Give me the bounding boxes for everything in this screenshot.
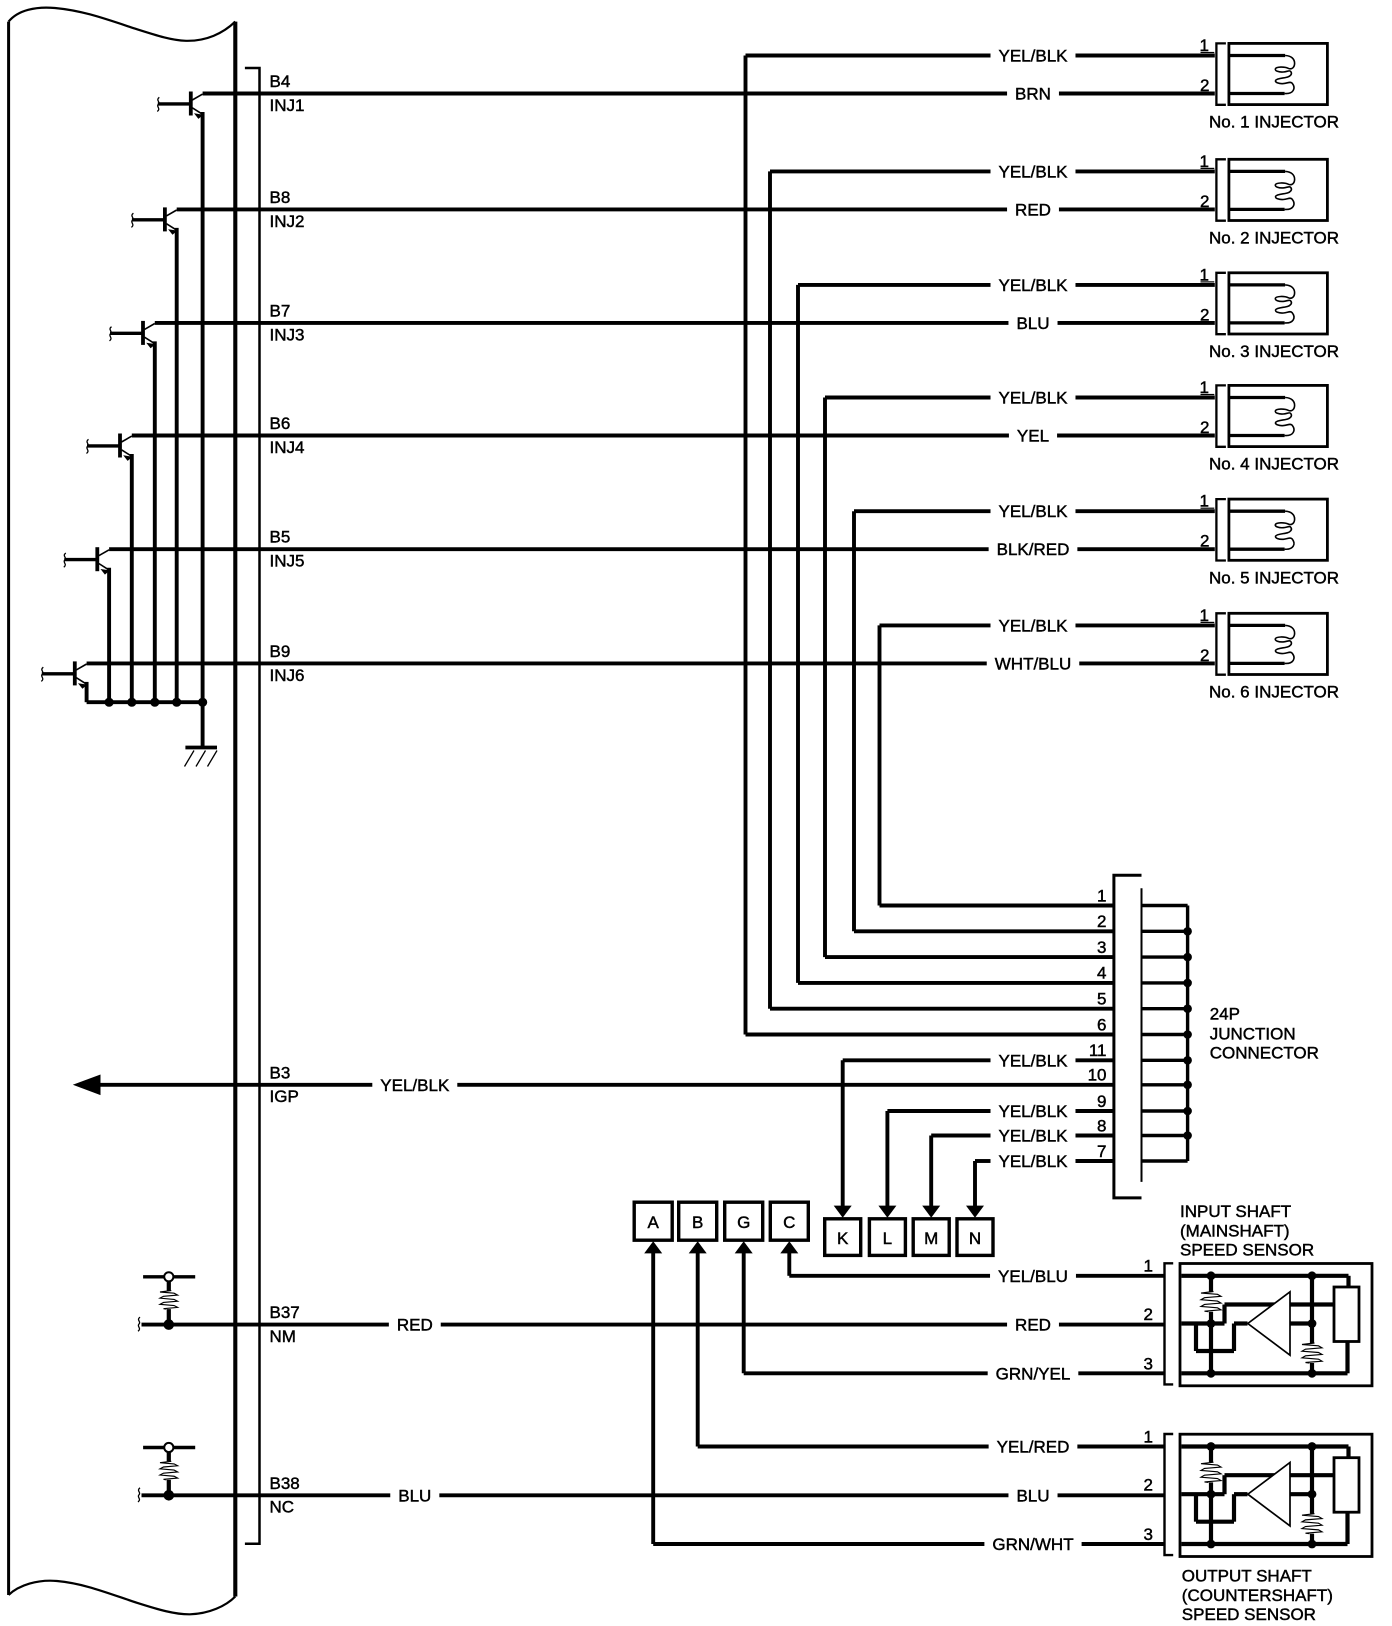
svg-text:B37: B37 — [270, 1303, 300, 1322]
svg-text:2: 2 — [1144, 1476, 1153, 1495]
wire YEL/BLK (No.1 injector pin 1) — [746, 54, 991, 58]
svg-text:BLU: BLU — [1016, 314, 1049, 333]
wire 24P pin 1 from injector 6 drop — [880, 904, 1114, 908]
svg-text:11: 11 — [1089, 1041, 1107, 1060]
arrowhead IGP supply (left) — [73, 1075, 101, 1096]
wire YEL/BLK (No.5 injector pin 1) — [854, 509, 991, 513]
wire (cont.) — [1077, 1445, 1163, 1449]
svg-text:BLU: BLU — [1016, 1486, 1049, 1505]
svg-text:24P: 24P — [1210, 1005, 1240, 1024]
injector No.6 coil — [1275, 625, 1294, 663]
svg-text:2: 2 — [1144, 1305, 1153, 1324]
injector connector bracket No.2 — [1216, 159, 1226, 220]
svg-text:RED: RED — [1015, 1316, 1051, 1335]
svg-text:9: 9 — [1097, 1092, 1106, 1111]
svg-text:2: 2 — [1200, 532, 1209, 551]
injector No.6 body — [1229, 613, 1328, 674]
wire Q3 emitter down — [153, 341, 157, 702]
svg-text:RED: RED — [1015, 200, 1051, 219]
svg-text:G: G — [737, 1213, 750, 1232]
wire R3 bottom to ground rail — [1345, 1342, 1349, 1374]
svg-text:(MAINSHAFT): (MAINSHAFT) — [1180, 1221, 1290, 1240]
svg-text:INPUT SHAFT: INPUT SHAFT — [1180, 1202, 1291, 1221]
svg-text:INJ2: INJ2 — [270, 212, 305, 231]
wire YEL/BLK (cont.) — [1075, 283, 1214, 287]
transistor Q4 (injector driver INJ4) — [87, 434, 133, 461]
wire YEL/BLK (No.3 injector pin 1) — [798, 283, 991, 287]
arrowhead into K — [834, 1206, 852, 1218]
wire YEL/BLK (cont.) — [1075, 1159, 1113, 1163]
wire R3 bottom to ground rail — [1345, 1512, 1349, 1544]
injector No.3 body — [1229, 273, 1328, 334]
wire BLU (right) — [1058, 1493, 1164, 1497]
wire break squiggle — [138, 1317, 140, 1331]
junction dot 24P bus — [1183, 1107, 1192, 1116]
svg-text:N: N — [969, 1229, 981, 1248]
svg-text:No. 2 INJECTOR: No. 2 INJECTOR — [1209, 229, 1339, 248]
wire YEL/BLK (No.4 injector pin 1) — [825, 396, 991, 400]
wire YEL/BLK (No.6 injector pin 1) — [880, 623, 991, 627]
wire YEL/BLK (24P pin 7 to connector N) — [975, 1159, 991, 1163]
svg-text:No. 3 INJECTOR: No. 3 INJECTOR — [1209, 342, 1339, 361]
wire Q5 emitter down — [107, 568, 111, 703]
wire (cont.) — [1059, 207, 1215, 211]
injector No.4 body — [1229, 385, 1328, 446]
wire (cont.) — [1079, 661, 1215, 665]
24P pin 11 right stub — [1142, 1059, 1188, 1062]
output shaft sensor body — [1180, 1434, 1372, 1556]
junction dot 24P bus — [1183, 1030, 1192, 1039]
op-amp comparator triangle — [1248, 1292, 1290, 1355]
24P pin 9 right stub — [1142, 1109, 1188, 1112]
wire RED (mid) — [441, 1323, 1007, 1327]
injector No.1 coil — [1275, 56, 1294, 94]
wire Q6 emitter down — [85, 682, 89, 702]
svg-text:GRN/YEL: GRN/YEL — [996, 1364, 1071, 1383]
injector No.3 coil — [1275, 285, 1294, 323]
wire YEL/BLK (cont.) — [1075, 1134, 1113, 1138]
wire vertical — [651, 1253, 655, 1544]
wire 24P pin 3 from injector 4 drop — [825, 955, 1114, 959]
connector box G — [725, 1202, 763, 1240]
wire 24P jumper bus — [1186, 906, 1189, 1162]
wire drop to K — [841, 1060, 845, 1206]
wire YEL/BLK (cont.) — [1075, 396, 1214, 400]
svg-text:No. 4 INJECTOR: No. 4 INJECTOR — [1209, 455, 1339, 474]
internal ground rail (pin3) — [1181, 1371, 1347, 1375]
transistor Q1 (injector driver INJ1) — [157, 92, 203, 119]
svg-text:2: 2 — [1200, 646, 1209, 665]
svg-text:YEL/BLK: YEL/BLK — [380, 1076, 450, 1095]
wire YEL/BLK (cont.) — [1075, 1109, 1113, 1113]
transistor Q5 (injector driver INJ5) — [64, 547, 110, 574]
svg-text:(COUNTERSHAFT): (COUNTERSHAFT) — [1182, 1586, 1333, 1605]
svg-text:INJ3: INJ3 — [270, 325, 305, 344]
arrowhead into box — [689, 1241, 707, 1253]
wire YEL/BLK (cont.) — [1075, 623, 1214, 627]
svg-text:No. 5 INJECTOR: No. 5 INJECTOR — [1209, 568, 1339, 587]
output shaft speed sensor — [1144, 1427, 1372, 1556]
svg-text:1: 1 — [1144, 1427, 1153, 1446]
svg-text:3: 3 — [1144, 1525, 1153, 1544]
wire YEL/BLK (cont.) — [1075, 169, 1214, 173]
24P pin 3 right stub — [1142, 955, 1188, 958]
injector No.1 body — [1229, 43, 1328, 104]
svg-text:B5: B5 — [270, 528, 291, 547]
svg-text:7: 7 — [1097, 1142, 1106, 1161]
svg-text:NM: NM — [270, 1327, 296, 1346]
wire 24P pin 2 from injector 5 drop — [854, 929, 1114, 933]
wire YEL/BLK IGP (cont.) — [457, 1083, 1114, 1087]
injector connector bracket No.3 — [1216, 273, 1226, 334]
svg-text:2: 2 — [1200, 192, 1209, 211]
wire drop to N — [973, 1161, 977, 1206]
svg-text:YEL/BLK: YEL/BLK — [999, 389, 1069, 408]
svg-text:YEL/RED: YEL/RED — [997, 1438, 1070, 1457]
pin2 signal network — [1181, 1321, 1224, 1325]
svg-text:A: A — [648, 1213, 660, 1232]
pull-up resistor above B38 — [143, 1443, 195, 1495]
internal load resistor R3 (right box) — [1334, 1458, 1359, 1513]
svg-text:B9: B9 — [270, 642, 291, 661]
injector No.3 coil leads — [1230, 283, 1285, 286]
op-amp output/input lines (right) — [1290, 1473, 1334, 1477]
junction dots — [1207, 1442, 1216, 1451]
junction dot 24P bus — [1183, 953, 1192, 962]
wire drop to M — [929, 1136, 933, 1207]
wire (cont.) — [1057, 434, 1215, 438]
input shaft sensor connector bracket — [1165, 1263, 1174, 1384]
arrowhead into box — [644, 1241, 662, 1253]
wire vertical — [787, 1253, 791, 1276]
junction dot emitter bus — [172, 698, 181, 707]
wire Q2 emitter down — [175, 228, 179, 702]
svg-text:BLK/RED: BLK/RED — [997, 540, 1070, 559]
injector No.2 coil leads — [1230, 170, 1285, 173]
svg-text:CONNECTOR: CONNECTOR — [1210, 1044, 1319, 1063]
internal load resistor R3 (right box) — [1334, 1287, 1359, 1342]
junction dot emitter bus — [198, 698, 207, 707]
arrowhead into M — [922, 1206, 940, 1218]
svg-text:YEL/BLK: YEL/BLK — [999, 47, 1069, 66]
wire 24P pin 5 from injector 2 drop — [770, 1007, 1114, 1011]
wire YEL/BLK vertical drop injector 6 — [878, 625, 882, 905]
pin2 signal network — [1181, 1492, 1224, 1496]
wire YEL/BLK (24P pin 9 to connector L) — [887, 1109, 990, 1113]
injector No.4 coil — [1275, 398, 1294, 436]
wire YEL/BLK (24P pin 8 to connector M) — [931, 1134, 990, 1138]
svg-text:INJ5: INJ5 — [270, 552, 305, 571]
transistor Q3 (injector driver INJ3) — [110, 321, 156, 348]
svg-text:YEL/BLK: YEL/BLK — [999, 276, 1069, 295]
wire common emitter bus — [87, 700, 203, 704]
24P pin 1 right stub — [1142, 904, 1188, 907]
wire (cont.) — [1059, 92, 1215, 96]
arrowhead into box — [780, 1241, 798, 1253]
input shaft speed sensor — [1144, 1257, 1372, 1386]
24P pin 8 right stub — [1142, 1134, 1188, 1137]
wire BLU (pin B to No.3 injector pin 2) — [155, 321, 1009, 325]
injector connector bracket No.6 — [1216, 613, 1226, 674]
ECM torn-paper left edge — [7, 22, 10, 1595]
junction dot 24P bus — [1183, 1131, 1192, 1140]
svg-text:YEL/BLK: YEL/BLK — [999, 1152, 1069, 1171]
24P pin 2 right stub — [1142, 930, 1188, 933]
svg-text:2: 2 — [1200, 305, 1209, 324]
junction dot 24P bus — [1183, 979, 1192, 988]
injector No.2 coil — [1275, 171, 1294, 209]
connector box C — [770, 1202, 808, 1240]
svg-text:OUTPUT SHAFT: OUTPUT SHAFT — [1182, 1567, 1312, 1586]
24P pin 6 right stub — [1142, 1033, 1188, 1036]
svg-text:2: 2 — [1200, 76, 1209, 95]
wire YEL/RED — [698, 1445, 989, 1449]
wire BLK/RED (pin B to No.5 injector pin 2) — [109, 547, 989, 551]
arrowhead into box — [735, 1241, 753, 1253]
svg-text:No. 1 INJECTOR: No. 1 INJECTOR — [1209, 113, 1339, 132]
internal supply rail (pin1) — [1181, 1444, 1348, 1448]
wire Q1 emitter to ground — [201, 112, 205, 747]
svg-text:YEL/BLK: YEL/BLK — [999, 162, 1069, 181]
internal right bus — [1310, 1276, 1314, 1343]
svg-text:5: 5 — [1097, 990, 1106, 1009]
wire WHT/BLU (pin B to No.6 injector pin 2) — [87, 661, 987, 665]
svg-text:3: 3 — [1144, 1354, 1153, 1373]
svg-text:3: 3 — [1097, 938, 1106, 957]
injector connector bracket No.5 — [1216, 499, 1226, 560]
svg-text:YEL/BLK: YEL/BLK — [999, 616, 1069, 635]
wire RED (right) — [1059, 1323, 1164, 1327]
input shaft sensor body — [1180, 1264, 1372, 1386]
wire YEL/BLK vertical drop injector 5 — [852, 511, 856, 931]
wire 24P pin 6 from injector 1 drop — [746, 1033, 1114, 1037]
connector box K — [825, 1219, 861, 1256]
wire GRN/WHT — [653, 1542, 984, 1546]
wire YEL/BLK (24P pin 11 to connector K) — [843, 1058, 991, 1062]
junction dot emitter bus — [150, 698, 159, 707]
ECM connector bracket — [245, 68, 260, 1544]
injector No.5 body — [1229, 499, 1328, 560]
injector connector bracket No.4 — [1216, 385, 1226, 446]
junction dot 24P bus — [1183, 1004, 1192, 1013]
wire YEL (pin B to No.4 injector pin 2) — [132, 434, 1009, 438]
injector No.2 body — [1229, 159, 1328, 220]
svg-text:B7: B7 — [270, 301, 291, 320]
internal supply rail (pin1) — [1181, 1274, 1348, 1278]
connector box M — [913, 1219, 949, 1256]
wire YEL/BLK (cont.) — [1075, 54, 1214, 58]
internal bias resistor R2 (right) — [1302, 1514, 1322, 1534]
24P pin 7 right stub — [1142, 1159, 1188, 1162]
wire GRN/YEL — [744, 1371, 988, 1375]
svg-text:YEL/BLK: YEL/BLK — [999, 1051, 1069, 1070]
wire BRN (pin B to No.1 injector pin 2) — [203, 92, 1007, 96]
svg-text:B: B — [692, 1213, 703, 1232]
wire Q4 emitter down — [130, 454, 134, 702]
svg-text:JUNCTION: JUNCTION — [1210, 1024, 1296, 1043]
wire (cont.) — [1082, 1542, 1164, 1546]
24P pin 10 right stub — [1142, 1083, 1188, 1086]
svg-text:SPEED SENSOR: SPEED SENSOR — [1180, 1241, 1314, 1260]
wire (cont.) — [1078, 1371, 1163, 1375]
wire YEL/BLK vertical drop injector 2 — [768, 171, 772, 1008]
wire YEL/BLK vertical drop injector 4 — [823, 398, 827, 958]
svg-text:YEL/BLU: YEL/BLU — [998, 1267, 1068, 1286]
wire YEL/BLK (cont.) — [1075, 509, 1214, 513]
ECM torn-paper right edge — [233, 22, 237, 1597]
op-amp comparator triangle — [1248, 1463, 1290, 1526]
svg-text:8: 8 — [1097, 1116, 1106, 1135]
svg-text:B3: B3 — [270, 1063, 291, 1082]
svg-text:YEL/BLK: YEL/BLK — [999, 1127, 1069, 1146]
svg-text:L: L — [883, 1229, 892, 1248]
24P pin 4 right stub — [1142, 981, 1188, 984]
wire RED (B37 row) — [142, 1323, 389, 1327]
injector No.4 coil leads — [1230, 396, 1285, 399]
svg-text:SPEED SENSOR: SPEED SENSOR — [1182, 1605, 1316, 1624]
wire (cont.) — [1076, 1274, 1164, 1278]
connector box L — [869, 1219, 905, 1256]
24P pin 5 right stub — [1142, 1007, 1188, 1010]
svg-text:B6: B6 — [270, 414, 291, 433]
wire (cont.) — [1058, 321, 1215, 325]
junction dot emitter bus — [105, 698, 114, 707]
injector No.1 coil leads — [1230, 54, 1285, 57]
internal right bus — [1310, 1447, 1314, 1514]
wire drop to L — [885, 1111, 889, 1206]
injector No.5 coil — [1275, 511, 1294, 549]
ground symbol — [185, 748, 218, 767]
svg-text:INJ6: INJ6 — [270, 666, 305, 685]
ECM torn-paper bottom edge — [9, 1581, 236, 1615]
svg-text:GRN/WHT: GRN/WHT — [992, 1535, 1073, 1554]
wire BLU (B38 row) — [142, 1493, 391, 1497]
junction dot 24P bus — [1183, 1056, 1192, 1065]
svg-text:INJ1: INJ1 — [270, 96, 305, 115]
junction dot B38 — [164, 1490, 175, 1501]
svg-text:1: 1 — [1097, 886, 1106, 905]
svg-text:BLU: BLU — [398, 1486, 431, 1505]
wire YEL/BLK B3 IGP — [98, 1083, 372, 1087]
wire break squiggle — [138, 1488, 140, 1502]
svg-text:4: 4 — [1097, 964, 1106, 983]
svg-text:M: M — [924, 1229, 938, 1248]
junction dot 24P bus — [1183, 927, 1192, 936]
svg-text:6: 6 — [1097, 1015, 1106, 1034]
wire RED (pin B to No.2 injector pin 2) — [177, 207, 1007, 211]
svg-text:YEL/BLK: YEL/BLK — [999, 1102, 1069, 1121]
injector No.5 coil leads — [1230, 510, 1285, 513]
op-amp output/input lines (right) — [1290, 1302, 1334, 1306]
junction dot 24P bus — [1183, 1081, 1192, 1090]
svg-text:C: C — [783, 1213, 795, 1232]
svg-text:B4: B4 — [270, 72, 291, 91]
svg-text:B8: B8 — [270, 188, 291, 207]
wire BLU (mid) — [439, 1493, 1008, 1497]
svg-text:RED: RED — [397, 1316, 433, 1335]
junction dot B37 — [164, 1319, 175, 1330]
pull-up resistor above B37 — [143, 1272, 195, 1324]
injector No.6 coil leads — [1230, 624, 1285, 627]
connector box A — [634, 1202, 672, 1240]
svg-text:B38: B38 — [270, 1474, 300, 1493]
connector box B — [679, 1202, 717, 1240]
junction dots — [1207, 1271, 1216, 1280]
svg-text:No. 6 INJECTOR: No. 6 INJECTOR — [1209, 683, 1339, 702]
injector connector bracket No.1 — [1216, 43, 1226, 104]
svg-text:2: 2 — [1097, 912, 1106, 931]
svg-text:INJ4: INJ4 — [270, 438, 305, 457]
output shaft sensor connector bracket — [1165, 1434, 1174, 1555]
internal bias resistor R1 (left) — [1209, 1447, 1213, 1463]
svg-text:BRN: BRN — [1015, 85, 1051, 104]
svg-text:K: K — [837, 1229, 849, 1248]
svg-text:10: 10 — [1088, 1066, 1107, 1085]
svg-text:2: 2 — [1200, 418, 1209, 437]
wire YEL/BLK vertical drop injector 1 — [744, 56, 748, 1035]
transistor Q6 (injector driver INJ6) — [41, 661, 87, 688]
arrowhead into N — [966, 1206, 984, 1218]
24P junction connector shell — [1114, 875, 1142, 1198]
24P junction connector inner wall — [1141, 888, 1143, 1182]
internal bias resistor R2 (right) — [1302, 1343, 1322, 1363]
connector box N — [957, 1219, 993, 1256]
svg-text:YEL/BLK: YEL/BLK — [999, 502, 1069, 521]
svg-text:YEL: YEL — [1017, 427, 1049, 446]
wire vertical — [742, 1253, 746, 1374]
svg-text:IGP: IGP — [270, 1087, 299, 1106]
wire YEL/BLK (No.2 injector pin 1) — [770, 169, 991, 173]
junction dot emitter bus — [127, 698, 136, 707]
svg-text:1: 1 — [1144, 1257, 1153, 1276]
arrowhead into L — [878, 1206, 896, 1218]
wire YEL/BLK vertical drop injector 3 — [796, 285, 800, 983]
wire YEL/BLU — [789, 1274, 990, 1278]
wire (cont.) — [1077, 547, 1214, 551]
wire vertical — [696, 1253, 700, 1447]
svg-text:WHT/BLU: WHT/BLU — [995, 654, 1072, 673]
svg-text:NC: NC — [270, 1498, 295, 1517]
internal ground rail (pin3) — [1181, 1542, 1347, 1546]
ECM torn-paper top edge — [9, 8, 236, 41]
transistor Q2 (injector driver INJ2) — [131, 207, 177, 234]
wire 24P pin 4 from injector 3 drop — [798, 981, 1114, 985]
internal bias resistor R1 (left) — [1209, 1276, 1213, 1292]
wire YEL/BLK (cont.) — [1075, 1058, 1113, 1062]
